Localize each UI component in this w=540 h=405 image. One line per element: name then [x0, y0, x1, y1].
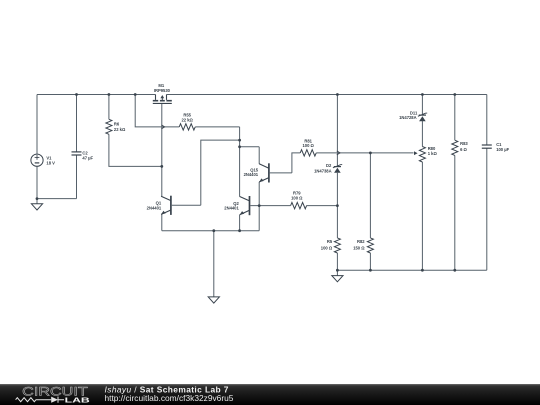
svg-text:IRP9530: IRP9530	[154, 88, 171, 93]
svg-text:100 Ω: 100 Ω	[303, 143, 315, 148]
svg-text:LAB: LAB	[65, 395, 91, 404]
svg-text:R5: R5	[327, 239, 333, 244]
svg-text:22 kΩ: 22 kΩ	[114, 127, 126, 132]
svg-text:2N4401: 2N4401	[244, 172, 259, 177]
svg-text:1 kΩ: 1 kΩ	[428, 151, 438, 156]
svg-text:1N4738A: 1N4738A	[314, 169, 332, 174]
svg-text:6 Ω: 6 Ω	[460, 147, 467, 152]
svg-text:100 Ω: 100 Ω	[291, 195, 303, 200]
svg-text:47 µF: 47 µF	[82, 156, 93, 161]
svg-text:2N4401: 2N4401	[147, 205, 162, 210]
svg-text:R82: R82	[357, 239, 365, 244]
svg-text:1N4728A: 1N4728A	[399, 115, 417, 120]
svg-text:http://circuitlab.com/cf3k32z9: http://circuitlab.com/cf3k32z9v6ru5	[105, 393, 234, 403]
svg-text:22 kΩ: 22 kΩ	[182, 117, 194, 122]
svg-text:D2: D2	[326, 163, 332, 168]
svg-text:R83: R83	[460, 141, 468, 146]
svg-text:18 V: 18 V	[46, 160, 55, 165]
svg-text:100 µF: 100 µF	[496, 147, 509, 152]
svg-text:2N4401: 2N4401	[224, 206, 239, 211]
svg-text:150 Ω: 150 Ω	[353, 246, 365, 251]
svg-text:100 Ω: 100 Ω	[321, 245, 333, 250]
